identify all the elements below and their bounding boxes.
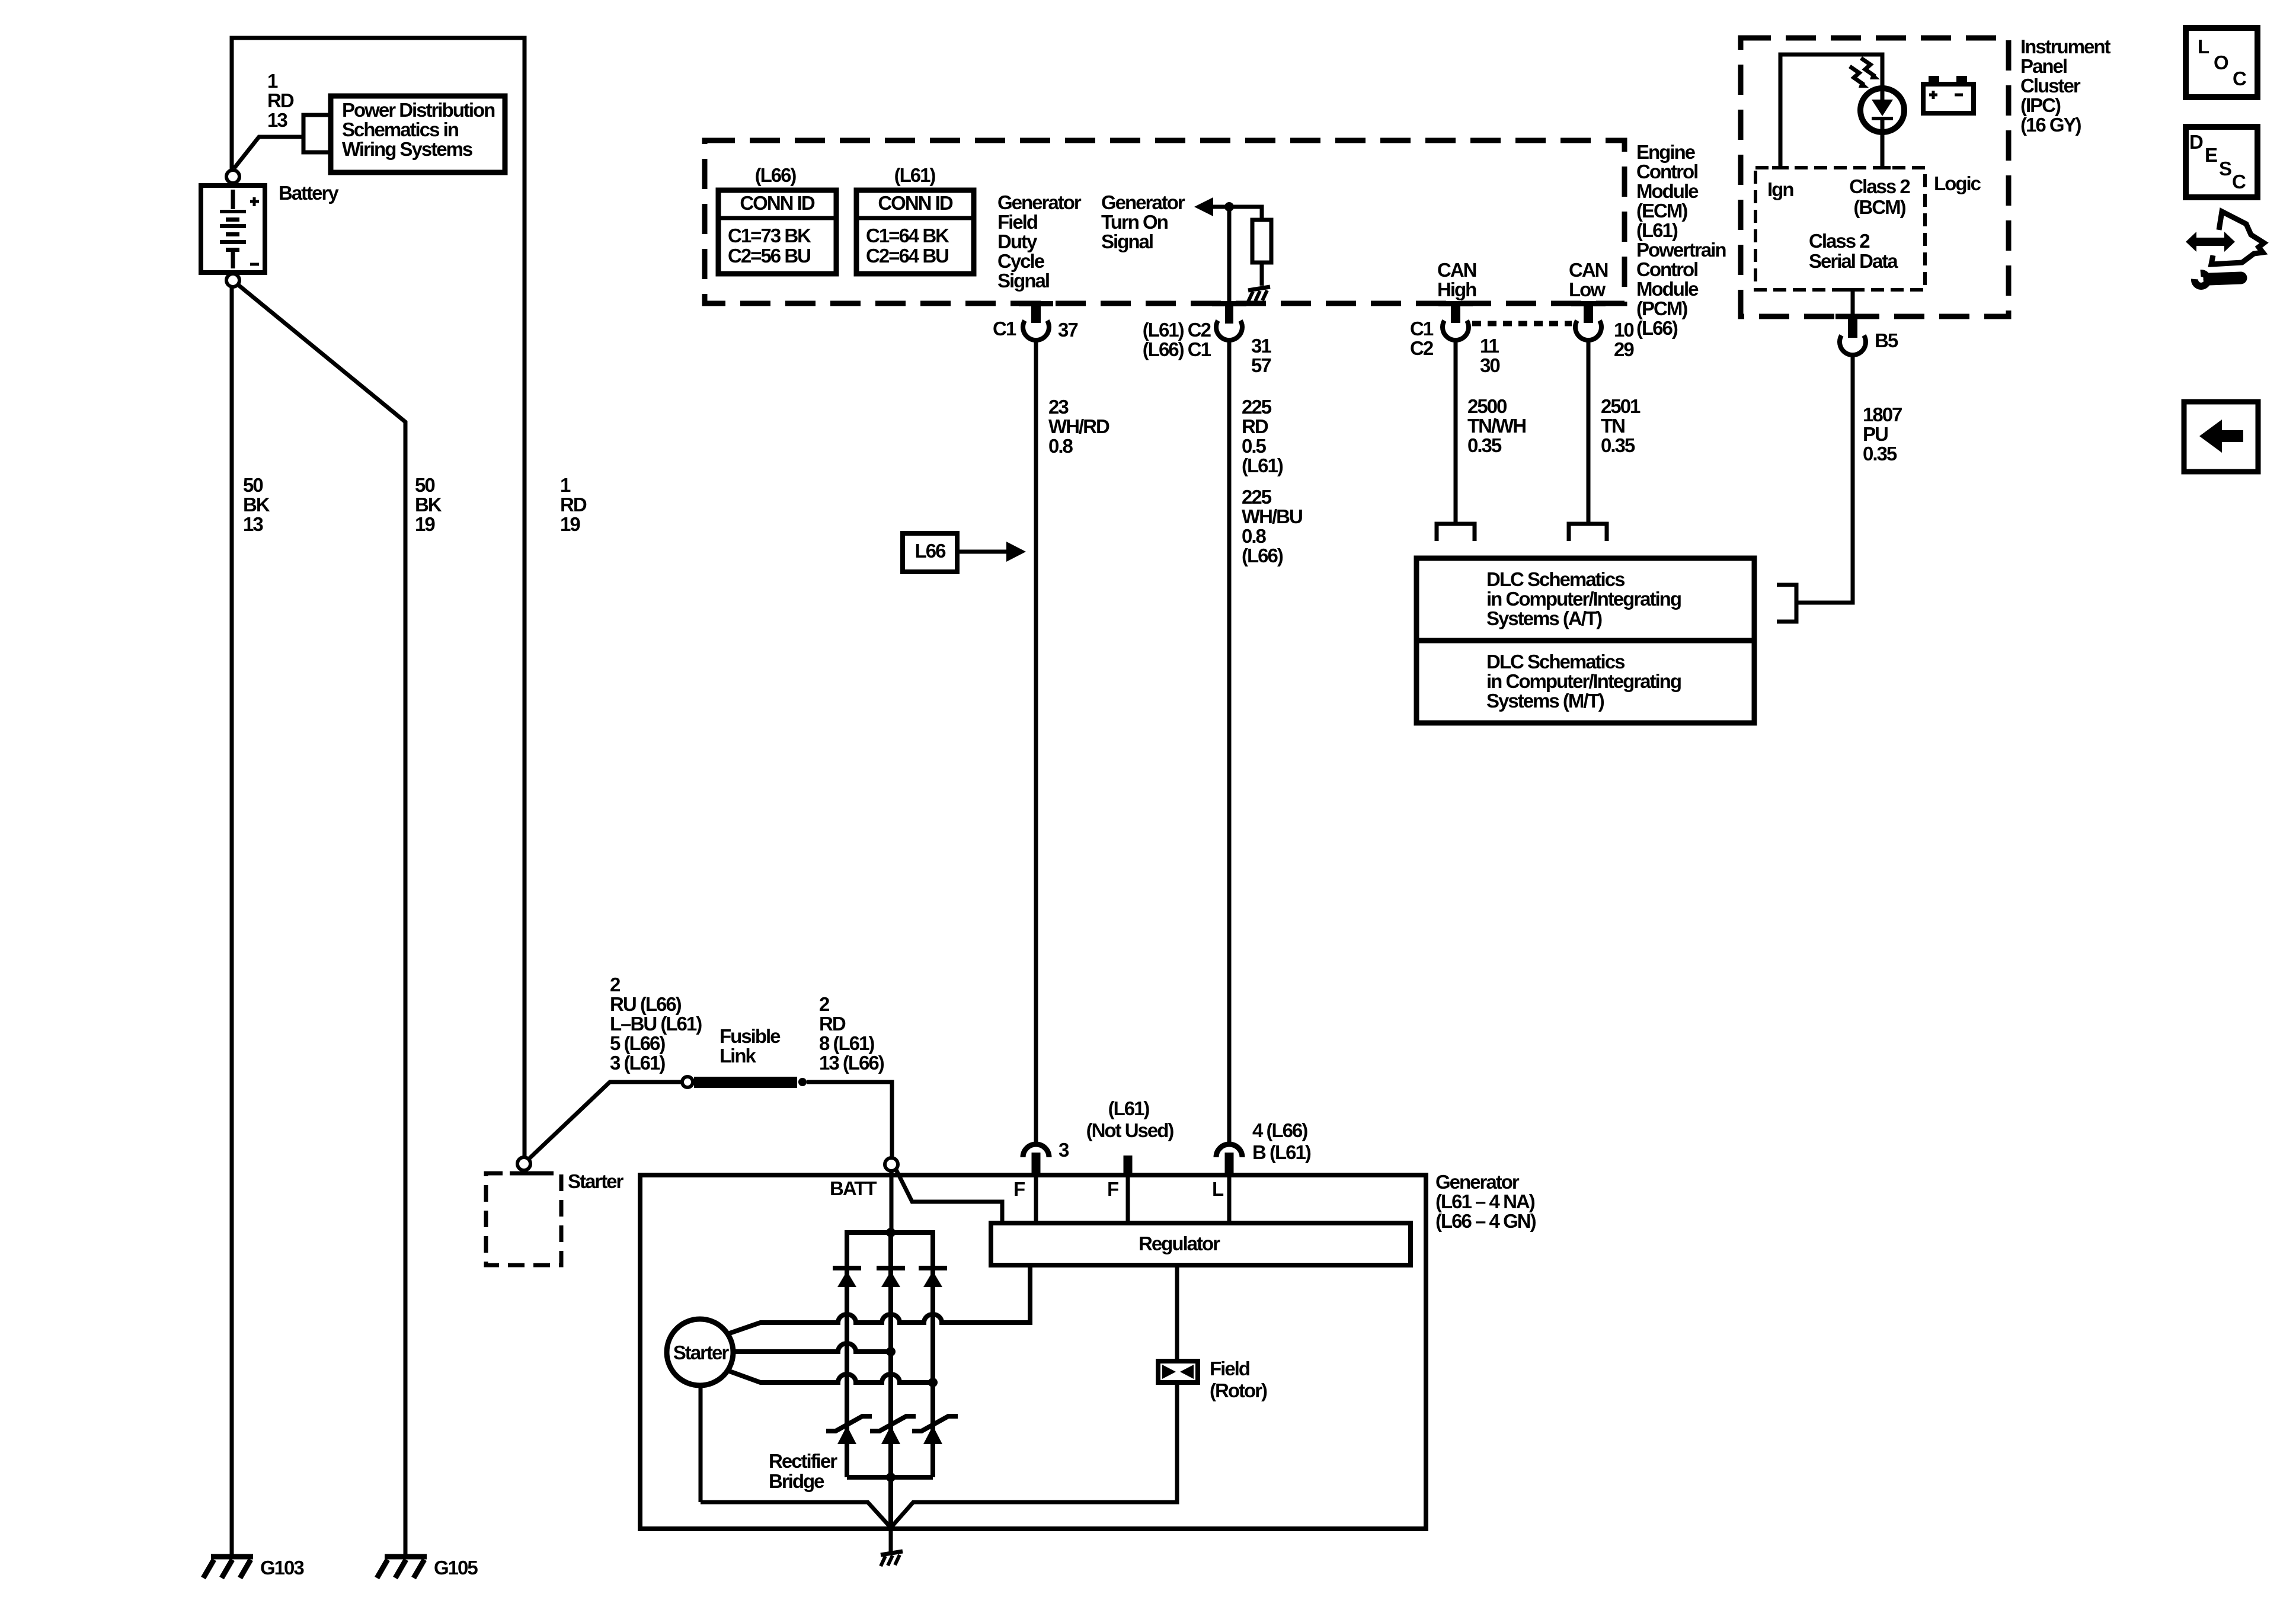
svg-text:in Computer/Integrating: in Computer/Integrating bbox=[1486, 588, 1681, 610]
svg-text:2: 2 bbox=[610, 974, 621, 996]
terminal F2 stub (not used) bbox=[1124, 1156, 1133, 1177]
battery bbox=[201, 185, 265, 273]
wire dash patches at box edge crossings bbox=[510, 166, 1891, 1176]
stator winding row A to regulator bbox=[728, 1265, 1030, 1334]
wire 2501 TN 0.35 bbox=[1587, 338, 1591, 524]
starter motor circle bbox=[667, 1319, 733, 1385]
svg-text:High: High bbox=[1437, 279, 1476, 300]
svg-text:Signal: Signal bbox=[997, 270, 1049, 292]
svg-text:Class 2: Class 2 bbox=[1809, 230, 1870, 252]
node starter battery junction bbox=[517, 1157, 530, 1170]
svg-text:(L61) C2: (L61) C2 bbox=[1143, 319, 1211, 341]
wire 50 BK 19 to G105 bbox=[238, 284, 405, 1555]
wire branch to power distribution bracket bbox=[234, 137, 303, 168]
svg-text:F: F bbox=[1013, 1178, 1025, 1200]
svg-text:2: 2 bbox=[819, 993, 830, 1015]
svg-text:Power Distribution: Power Distribution bbox=[342, 99, 495, 121]
svg-text:Turn On: Turn On bbox=[1101, 211, 1168, 233]
wire fusible link to BATT bbox=[807, 1082, 892, 1157]
svg-text:(L66): (L66) bbox=[1636, 317, 1678, 339]
icon DESC box bbox=[2186, 127, 2257, 197]
wire DLC bracket to B5 bbox=[1796, 356, 1853, 603]
rectifier diodes top row bbox=[833, 1268, 947, 1287]
svg-text:Module: Module bbox=[1636, 278, 1699, 300]
svg-text:C: C bbox=[2232, 171, 2246, 193]
icon check/repair wrench bbox=[2186, 212, 2264, 286]
svg-text:Regulator: Regulator bbox=[1139, 1233, 1220, 1254]
L66 tag box bbox=[903, 533, 957, 572]
box DLC Schematics A/T + M/T bbox=[1416, 558, 1754, 723]
svg-text:0.35: 0.35 bbox=[1863, 443, 1897, 465]
CONN ID table L61 bbox=[856, 190, 974, 274]
wire F2 to regulator bbox=[1126, 1177, 1130, 1223]
svg-text:(L61): (L61) bbox=[1108, 1097, 1150, 1119]
svg-text:TN: TN bbox=[1601, 415, 1625, 437]
svg-text:Logic: Logic bbox=[1934, 172, 1981, 194]
wire to fusible link bbox=[529, 1082, 682, 1159]
svg-text:CONN ID: CONN ID bbox=[740, 192, 815, 214]
svg-text:S: S bbox=[2219, 158, 2231, 180]
node bottom rail junction bbox=[886, 1473, 896, 1482]
wire battery positive to top rail and down to starter junction bbox=[232, 38, 525, 1156]
icon back arrow box bbox=[2184, 402, 2258, 472]
svg-text:Link: Link bbox=[720, 1045, 756, 1067]
svg-text:Wiring Systems: Wiring Systems bbox=[342, 138, 472, 160]
svg-text:Powertrain: Powertrain bbox=[1636, 239, 1726, 261]
svg-text:Bridge: Bridge bbox=[769, 1470, 824, 1492]
wire 50 BK 13 to G103 bbox=[230, 287, 234, 1555]
svg-text:Class 2: Class 2 bbox=[1849, 175, 1910, 197]
svg-text:CONN ID: CONN ID bbox=[878, 192, 953, 214]
svg-text:3: 3 bbox=[1059, 1139, 1069, 1161]
node battery negative terminal bbox=[226, 274, 239, 287]
svg-text:8 (L61): 8 (L61) bbox=[819, 1032, 874, 1054]
svg-text:5 (L66): 5 (L66) bbox=[610, 1032, 665, 1054]
icon LOC box bbox=[2186, 28, 2257, 97]
rectifier bottom rail bbox=[847, 1475, 933, 1480]
svg-text:Duty: Duty bbox=[997, 231, 1038, 252]
connector (L61) C2 / (L66) C1 pin 31/57 bbox=[1143, 210, 1272, 376]
wire F1 to regulator bbox=[1034, 1177, 1038, 1223]
wire 23 WH/RD 0.8 bbox=[1034, 338, 1038, 1145]
svg-text:10: 10 bbox=[1614, 319, 1633, 341]
svg-text:C1=64 BK: C1=64 BK bbox=[866, 225, 949, 247]
svg-text:(BCM): (BCM) bbox=[1853, 196, 1905, 218]
svg-text:Generator: Generator bbox=[1101, 191, 1185, 213]
svg-text:C1: C1 bbox=[993, 318, 1016, 340]
BCM logic dashed box bbox=[1755, 168, 1925, 290]
svg-text:RD: RD bbox=[267, 89, 294, 111]
svg-text:1: 1 bbox=[560, 474, 571, 496]
bracket DLC to IPC wire bbox=[1777, 585, 1796, 622]
svg-text:0.5: 0.5 bbox=[1242, 435, 1267, 457]
node BATT junction circle bbox=[885, 1158, 898, 1171]
svg-text:(L61 – 4 NA): (L61 – 4 NA) bbox=[1435, 1190, 1535, 1212]
wire rail to ground vee bbox=[888, 1477, 893, 1528]
svg-text:E: E bbox=[2205, 144, 2217, 166]
arrow generator turn on bbox=[1194, 197, 1213, 216]
wire resistor to ground bbox=[1260, 263, 1264, 286]
svg-text:B5: B5 bbox=[1875, 329, 1898, 351]
field rotor symbol bbox=[1158, 1361, 1198, 1382]
svg-text:37: 37 bbox=[1058, 319, 1077, 341]
svg-text:TN/WH: TN/WH bbox=[1467, 415, 1526, 437]
svg-text:(Rotor): (Rotor) bbox=[1210, 1379, 1267, 1401]
fusible link bbox=[682, 1077, 807, 1088]
svg-text:0.35: 0.35 bbox=[1467, 434, 1502, 456]
svg-text:30: 30 bbox=[1480, 354, 1499, 376]
CONN ID table L66 bbox=[718, 190, 836, 274]
svg-text:225: 225 bbox=[1242, 396, 1272, 418]
svg-text:(L66 – 4 GN): (L66 – 4 GN) bbox=[1435, 1210, 1536, 1232]
svg-text:Starter: Starter bbox=[568, 1170, 624, 1192]
svg-text:Starter: Starter bbox=[673, 1342, 730, 1363]
svg-text:C1=73 BK: C1=73 BK bbox=[728, 225, 811, 247]
stator winding row B bbox=[731, 1343, 891, 1352]
node battery positive terminal bbox=[226, 170, 239, 183]
wire BATT switch jog to regulator bbox=[896, 1169, 1002, 1223]
svg-text:19: 19 bbox=[415, 513, 435, 535]
connector CAN Low pin 10/29 bbox=[1575, 304, 1634, 360]
svg-text:(L61): (L61) bbox=[1636, 219, 1678, 241]
svg-text:PU: PU bbox=[1863, 423, 1888, 445]
svg-text:WH/RD: WH/RD bbox=[1048, 415, 1109, 437]
svg-text:O: O bbox=[2214, 52, 2228, 73]
svg-text:Schematics in: Schematics in bbox=[342, 119, 459, 140]
wire LED to BCM box bbox=[1881, 132, 1885, 168]
wire regulator to field bbox=[1175, 1265, 1179, 1361]
ground chassis (generator) bbox=[881, 1551, 903, 1566]
node junction turn-on/resistor bbox=[1224, 202, 1234, 212]
svg-text:Panel: Panel bbox=[2020, 55, 2067, 77]
svg-text:G105: G105 bbox=[434, 1557, 478, 1579]
svg-text:Fusible: Fusible bbox=[720, 1025, 781, 1047]
svg-text:WH/BU: WH/BU bbox=[1242, 505, 1302, 527]
resistor pull-down bbox=[1252, 220, 1271, 263]
wire L to regulator bbox=[1227, 1177, 1232, 1223]
svg-text:CAN: CAN bbox=[1569, 259, 1608, 281]
svg-text:(L66): (L66) bbox=[755, 164, 797, 186]
svg-text:Field: Field bbox=[997, 211, 1037, 233]
svg-text:DLC Schematics: DLC Schematics bbox=[1486, 651, 1625, 673]
svg-text:C1: C1 bbox=[1410, 318, 1434, 340]
ground G103 bbox=[203, 1557, 304, 1579]
svg-text:RU (L66): RU (L66) bbox=[610, 993, 682, 1015]
rectifier top rail bbox=[847, 1230, 933, 1235]
svg-text:L66: L66 bbox=[915, 540, 946, 562]
svg-text:(L66) C1: (L66) C1 bbox=[1143, 338, 1211, 360]
svg-text:Serial Data: Serial Data bbox=[1809, 250, 1898, 272]
svg-text:50: 50 bbox=[243, 474, 263, 496]
svg-text:C2=64 BU: C2=64 BU bbox=[866, 245, 948, 267]
connector arc terminal 3 bbox=[1023, 1139, 1069, 1177]
svg-text:RD: RD bbox=[1242, 415, 1268, 437]
svg-text:BK: BK bbox=[415, 494, 442, 516]
svg-text:Low: Low bbox=[1569, 279, 1606, 300]
svg-text:BK: BK bbox=[243, 494, 270, 516]
svg-text:2500: 2500 bbox=[1467, 395, 1507, 417]
svg-text:(ECM): (ECM) bbox=[1636, 200, 1687, 222]
svg-text:BATT: BATT bbox=[830, 1177, 877, 1199]
ground chassis (ECM internal) bbox=[1248, 287, 1270, 302]
lightning arrows at LED bbox=[1850, 58, 1880, 88]
arrow L66 to wire bbox=[957, 550, 1008, 554]
svg-text:3 (L61): 3 (L61) bbox=[610, 1052, 665, 1074]
svg-text:Field: Field bbox=[1210, 1358, 1249, 1379]
rectifier column wires bbox=[847, 1230, 933, 1477]
svg-text:F: F bbox=[1107, 1178, 1118, 1200]
connector CAN High C1/C2 pin 11/30 bbox=[1410, 304, 1499, 376]
wire LED loop bbox=[1780, 55, 1882, 168]
svg-text:Control: Control bbox=[1636, 161, 1697, 183]
svg-text:29: 29 bbox=[1614, 338, 1634, 360]
wire starter to ground bus bbox=[699, 1383, 703, 1502]
svg-text:CAN: CAN bbox=[1437, 259, 1476, 281]
svg-text:L: L bbox=[1212, 1178, 1224, 1200]
svg-text:(16 GY): (16 GY) bbox=[2020, 114, 2081, 136]
svg-text:(PCM): (PCM) bbox=[1636, 297, 1687, 319]
svg-text:Systems (A/T): Systems (A/T) bbox=[1486, 607, 1602, 629]
connector bracket to Power Distribution bbox=[303, 115, 329, 152]
terminal CAN High at DLC bbox=[1437, 524, 1475, 541]
svg-text:L–BU (L61): L–BU (L61) bbox=[610, 1013, 702, 1035]
node row C junction bbox=[928, 1378, 938, 1387]
svg-text:Cluster: Cluster bbox=[2020, 75, 2081, 97]
svg-text:B (L61): B (L61) bbox=[1252, 1141, 1311, 1163]
svg-text:Rectifier: Rectifier bbox=[769, 1450, 837, 1472]
svg-text:Battery: Battery bbox=[279, 182, 339, 204]
svg-text:Module: Module bbox=[1636, 180, 1699, 202]
svg-text:Systems (M/T): Systems (M/T) bbox=[1486, 690, 1604, 712]
regulator box bbox=[991, 1223, 1411, 1265]
svg-text:(IPC): (IPC) bbox=[2020, 94, 2061, 116]
rectifier avalanche diodes bottom row bbox=[826, 1416, 958, 1444]
svg-text:50: 50 bbox=[415, 474, 434, 496]
connector arc terminal L bbox=[1216, 1144, 1242, 1177]
svg-text:57: 57 bbox=[1251, 354, 1271, 376]
svg-text:31: 31 bbox=[1251, 335, 1271, 357]
svg-text:Signal: Signal bbox=[1101, 231, 1153, 252]
node row B junction bbox=[886, 1347, 896, 1356]
svg-text:D: D bbox=[2189, 131, 2203, 153]
svg-text:DLC Schematics: DLC Schematics bbox=[1486, 568, 1625, 590]
svg-text:Engine: Engine bbox=[1636, 141, 1696, 163]
svg-text:23: 23 bbox=[1048, 396, 1069, 418]
ground G105 bbox=[377, 1557, 478, 1579]
terminal CAN Low at DLC bbox=[1569, 524, 1607, 541]
box Power Distribution Schematics in Wiring Systems bbox=[331, 96, 505, 172]
svg-text:0.8: 0.8 bbox=[1048, 435, 1073, 457]
generator box bbox=[640, 1175, 1426, 1529]
svg-text:RD: RD bbox=[560, 494, 587, 516]
svg-text:(L66): (L66) bbox=[1242, 545, 1283, 566]
stator winding row C bbox=[728, 1371, 933, 1382]
wire BCM to B5 connector bbox=[1851, 290, 1855, 316]
svg-text:2501: 2501 bbox=[1601, 395, 1641, 417]
wire 225 RD / WH-BU bbox=[1227, 338, 1232, 1145]
node rail junction bbox=[886, 1228, 896, 1237]
svg-text:(L61): (L61) bbox=[894, 164, 936, 186]
wire BATT down to rectifier rail bbox=[890, 1171, 894, 1233]
svg-text:C2: C2 bbox=[1410, 337, 1434, 359]
svg-text:in Computer/Integrating: in Computer/Integrating bbox=[1486, 670, 1681, 692]
svg-text:225: 225 bbox=[1242, 486, 1272, 508]
svg-text:13 (L66): 13 (L66) bbox=[819, 1052, 884, 1074]
ECM/PCM dashed box bbox=[705, 140, 1625, 303]
svg-text:C: C bbox=[2233, 68, 2246, 89]
svg-text:1: 1 bbox=[267, 70, 278, 92]
dotted link between CAN connectors bbox=[1472, 321, 1572, 327]
svg-text:Generator: Generator bbox=[1435, 1171, 1520, 1193]
svg-text:0.8: 0.8 bbox=[1242, 525, 1267, 547]
svg-text:Cycle: Cycle bbox=[997, 250, 1045, 272]
svg-text:Ign: Ign bbox=[1767, 178, 1793, 200]
wire 2500 TN/WH 0.35 bbox=[1454, 338, 1458, 524]
battery icon IPC bbox=[1923, 76, 1974, 113]
svg-text:C2=56 BU: C2=56 BU bbox=[728, 245, 810, 267]
svg-text:1807: 1807 bbox=[1863, 404, 1902, 425]
starter dashed box bbox=[486, 1173, 561, 1265]
svg-text:4 (L66): 4 (L66) bbox=[1252, 1119, 1307, 1141]
svg-text:13: 13 bbox=[243, 513, 263, 535]
svg-text:Control: Control bbox=[1636, 258, 1697, 280]
svg-text:(L61): (L61) bbox=[1242, 454, 1283, 476]
svg-text:G103: G103 bbox=[260, 1557, 304, 1579]
svg-text:0.35: 0.35 bbox=[1601, 434, 1635, 456]
svg-text:Generator: Generator bbox=[997, 191, 1082, 213]
svg-text:Instrument: Instrument bbox=[2020, 36, 2111, 57]
connector C1 pin 37 bbox=[993, 304, 1077, 341]
internal ground bus with vee bbox=[701, 1382, 1177, 1528]
svg-text:L: L bbox=[2198, 36, 2209, 57]
svg-text:19: 19 bbox=[560, 513, 580, 535]
svg-text:(Not Used): (Not Used) bbox=[1086, 1119, 1174, 1141]
LED indicator bbox=[1860, 88, 1904, 132]
svg-text:11: 11 bbox=[1480, 335, 1499, 357]
connector B5 bbox=[1840, 316, 1898, 355]
svg-text:RD: RD bbox=[819, 1013, 846, 1035]
ground stub below generator bbox=[889, 1528, 893, 1553]
svg-text:13: 13 bbox=[267, 109, 287, 131]
wire turn on signal bbox=[1212, 207, 1262, 220]
IPC dashed box bbox=[1741, 38, 2009, 316]
